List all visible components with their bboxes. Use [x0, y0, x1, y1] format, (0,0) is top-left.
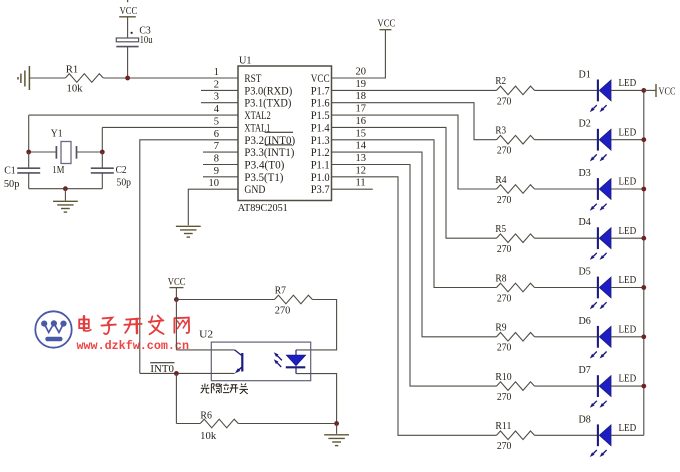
- wire R2 to D1: [535, 89, 598, 91]
- node A junction (RST/R1/C3): [125, 76, 130, 81]
- svg-text:12: 12: [356, 165, 367, 176]
- node rail junction row 6: [641, 334, 646, 339]
- svg-text:270: 270: [275, 305, 291, 316]
- svg-text:10u: 10u: [140, 35, 154, 46]
- svg-text:LED: LED: [619, 177, 637, 188]
- svg-text:2: 2: [214, 79, 219, 90]
- svg-text:R1: R1: [66, 65, 79, 76]
- svg-text:17: 17: [356, 104, 367, 115]
- wire pin 8 stub: [203, 164, 238, 166]
- node rail junction row 7: [641, 384, 646, 389]
- wire pin 17 to R4: [332, 115, 497, 189]
- resistor R4: [497, 185, 535, 194]
- svg-text:D7: D7: [579, 365, 591, 376]
- svg-text:P1.1: P1.1: [311, 160, 330, 172]
- node crystal ground junction: [63, 186, 68, 191]
- svg-text:10k: 10k: [200, 431, 217, 442]
- wire pin 3 stub: [201, 102, 238, 104]
- wire crystal left up to XTAL2: [28, 115, 30, 152]
- node rail junction row 2: [641, 137, 646, 142]
- svg-text:P3.1(TXD): P3.1(TXD): [244, 98, 291, 110]
- wire R7 to LED anode: [296, 300, 337, 350]
- resistor R9: [497, 333, 535, 342]
- svg-text:LED: LED: [619, 423, 637, 434]
- LED D2: [590, 129, 611, 162]
- wire R8 to D5: [535, 287, 598, 289]
- op-amp U2 optocoupler box: [211, 342, 310, 381]
- wire pin 13 to R10: [332, 165, 497, 387]
- VCC power symbol (right rail): [655, 84, 657, 97]
- node INT0 label: [150, 362, 174, 364]
- wire D6 to VCC rail: [611, 336, 644, 338]
- svg-text:VCC: VCC: [120, 6, 138, 17]
- wire VCC node down to collector: [175, 300, 177, 350]
- wire R3 to D2: [535, 139, 598, 141]
- capacitor C3 (polarized 10u): [116, 32, 138, 47]
- svg-text:VCC: VCC: [377, 18, 395, 29]
- wire pin 16 to R5: [332, 127, 497, 238]
- svg-text:1: 1: [214, 67, 219, 78]
- svg-text:LED: LED: [619, 78, 637, 89]
- op-amp U1 AT89C2051 body: [238, 66, 332, 201]
- svg-text:50p: 50p: [4, 179, 20, 190]
- wire collector entry: [176, 349, 234, 351]
- svg-text:8: 8: [214, 154, 219, 165]
- wire VCC tick down: [175, 288, 177, 300]
- wire GND pin 10 down: [188, 189, 238, 225]
- ground (crystal): [53, 201, 78, 212]
- wire P3.2 INT0 down to optocoupler: [140, 140, 238, 374]
- svg-text:LED: LED: [619, 374, 637, 385]
- svg-text:P3.4(T0): P3.4(T0): [244, 160, 284, 172]
- LED (emitter diode in U2): [286, 350, 306, 374]
- resistor R8: [497, 283, 535, 292]
- wire R4 to D3: [535, 188, 598, 190]
- wire XTAL2 pin 4: [29, 114, 238, 116]
- resistor R6: [200, 419, 238, 428]
- svg-text:270: 270: [497, 96, 512, 107]
- resistor R11: [497, 431, 535, 440]
- svg-text:R9: R9: [495, 323, 506, 334]
- wire VCC to C3: [127, 17, 129, 38]
- wire pin 14 to R9: [332, 152, 497, 337]
- svg-text:VCC: VCC: [168, 277, 186, 288]
- svg-text:VCC: VCC: [311, 73, 330, 85]
- wire XTAL1 pin 5: [102, 126, 238, 128]
- svg-text:13: 13: [356, 153, 367, 164]
- svg-text:www.dzkfw.com.cn: www.dzkfw.com.cn: [77, 339, 190, 353]
- svg-text:R3: R3: [495, 126, 506, 137]
- wire rail to VCC symbol: [644, 89, 656, 91]
- LED D4: [590, 227, 611, 260]
- wire D1 to VCC rail: [611, 89, 644, 91]
- svg-text:AT89C2051: AT89C2051: [238, 202, 288, 214]
- VCC power symbol (above R7): [169, 287, 183, 289]
- svg-text:D6: D6: [579, 316, 591, 327]
- svg-text:1M: 1M: [52, 165, 65, 176]
- svg-text:18: 18: [356, 91, 367, 102]
- svg-text:19: 19: [356, 79, 367, 90]
- node rail junction row 1: [641, 88, 646, 93]
- svg-text:D8: D8: [579, 414, 591, 425]
- svg-text:D1: D1: [579, 69, 591, 80]
- LED D1: [590, 80, 611, 113]
- crystal Y1 (1M): [29, 142, 103, 164]
- capacitor C1 (50p): [17, 152, 40, 189]
- node INT0 junction: [174, 371, 179, 376]
- wire pin 9 stub: [203, 176, 238, 178]
- LED D3: [590, 178, 611, 211]
- node VCC/R7/collector junction: [174, 297, 179, 302]
- resistor R7: [274, 295, 312, 304]
- resistor R5: [497, 234, 535, 243]
- transistor Q (photo-transistor in U2): [235, 350, 243, 374]
- svg-text:4: 4: [214, 104, 220, 115]
- svg-text:D3: D3: [579, 168, 591, 179]
- wire pin 11 stub: [332, 188, 373, 190]
- capacitor C2 (50p): [91, 152, 114, 189]
- node rail junction row 3: [641, 187, 646, 192]
- node crystal left junction: [26, 150, 31, 155]
- svg-text:P3.3(INT1): P3.3(INT1): [244, 147, 294, 159]
- svg-text:U1: U1: [239, 55, 252, 67]
- wire crystal right up to XTAL1: [101, 127, 103, 152]
- U1 pin name labels: [244, 73, 330, 196]
- node rail junction row 5: [641, 285, 646, 290]
- svg-text:XTAL2: XTAL2: [244, 110, 271, 122]
- svg-text:20: 20: [356, 67, 367, 78]
- wire pin 7 stub: [203, 151, 238, 153]
- svg-text:270: 270: [497, 293, 512, 304]
- wire D5 to VCC rail: [611, 287, 644, 289]
- node R6/cathode ground junction: [334, 421, 339, 426]
- svg-text:P1.6: P1.6: [311, 98, 330, 110]
- svg-text:P3.5(T1): P3.5(T1): [244, 172, 283, 184]
- svg-text:11: 11: [356, 178, 366, 189]
- svg-text:P1.4: P1.4: [311, 122, 330, 134]
- resistor R1: [65, 74, 103, 83]
- wire VCC node to R7: [176, 299, 274, 301]
- svg-text:15: 15: [356, 128, 367, 139]
- svg-text:R10: R10: [495, 372, 511, 383]
- resistor R10: [497, 382, 535, 391]
- wire to R6: [176, 423, 200, 425]
- svg-text:P3.0(RXD): P3.0(RXD): [244, 85, 292, 97]
- node crystal right junction: [100, 150, 105, 155]
- resistor R2: [497, 86, 535, 95]
- svg-text:10k: 10k: [67, 83, 84, 94]
- svg-text:C1: C1: [4, 165, 16, 176]
- svg-text:LED: LED: [619, 226, 637, 237]
- svg-text:R8: R8: [495, 273, 506, 284]
- wire R9 to D6: [535, 336, 598, 338]
- svg-text:6: 6: [214, 129, 219, 140]
- LED D5: [590, 277, 611, 310]
- node rail junction row 4: [641, 236, 646, 241]
- wire D4 to VCC rail: [611, 237, 644, 239]
- wire emitter / INT0 net: [140, 372, 235, 374]
- svg-text:16: 16: [356, 116, 367, 127]
- wire R10 to D7: [535, 385, 598, 387]
- svg-text:GND: GND: [244, 184, 265, 196]
- svg-text:U2: U2: [199, 329, 213, 341]
- watermark logo circle: [35, 311, 71, 347]
- svg-text:P3.7: P3.7: [311, 184, 330, 196]
- svg-text:VCC: VCC: [659, 86, 676, 97]
- watermark text dianzikaifawang (vector strokes): [79, 315, 189, 334]
- svg-text:Y1: Y1: [51, 129, 63, 140]
- wire pin 19 to R2: [332, 89, 497, 91]
- wire C1 to C2 bottom: [29, 188, 103, 190]
- wire ground to R1: [29, 77, 65, 79]
- light arrows in U2: [274, 352, 282, 367]
- LED D6: [590, 326, 611, 359]
- svg-text:R6: R6: [200, 410, 212, 421]
- ground (left of R1, rotated earth): [18, 66, 29, 90]
- wire pin 12 to R11: [332, 177, 497, 436]
- svg-text:270: 270: [497, 392, 512, 403]
- wire D7 to VCC rail: [611, 385, 644, 387]
- svg-text:C2: C2: [116, 165, 127, 176]
- svg-text:LED: LED: [619, 324, 637, 335]
- wire D8 to VCC rail: [611, 434, 644, 436]
- svg-text:D2: D2: [579, 119, 591, 130]
- ground (bottom right): [324, 435, 349, 446]
- VCC power symbol (top, above C3): [119, 0, 136, 17]
- svg-text:9: 9: [214, 166, 219, 177]
- ground (U1 GND pin): [176, 226, 201, 237]
- svg-text:R5: R5: [495, 224, 506, 235]
- wire pin 2 stub: [201, 89, 238, 91]
- svg-text:P1.2: P1.2: [311, 147, 330, 159]
- svg-text:270: 270: [497, 343, 512, 354]
- svg-text:270: 270: [497, 441, 512, 452]
- svg-text:10: 10: [209, 178, 220, 189]
- svg-text:7: 7: [214, 141, 219, 152]
- svg-text:R2: R2: [495, 76, 506, 87]
- svg-text:P1.0: P1.0: [311, 172, 330, 184]
- svg-text:P1.3: P1.3: [311, 135, 330, 147]
- wire R11 to D8: [535, 434, 598, 436]
- wire R1 to RST pin 1 through node: [103, 77, 238, 79]
- svg-text:270: 270: [497, 244, 512, 255]
- wire INT0 node down to R6: [175, 373, 177, 423]
- svg-text:R11: R11: [495, 421, 511, 432]
- svg-text:50p: 50p: [117, 177, 132, 188]
- wire VCC pin 20 up: [332, 30, 386, 78]
- svg-text:5: 5: [214, 116, 219, 127]
- svg-text:P1.5: P1.5: [311, 110, 330, 122]
- wire D3 to VCC rail: [611, 188, 644, 190]
- wire pin 18 to R3: [332, 103, 497, 140]
- wire VCC rail (right): [643, 90, 645, 435]
- svg-text:D4: D4: [579, 217, 592, 228]
- wire to crystal ground: [64, 189, 66, 201]
- wire down to ground: [336, 424, 338, 434]
- svg-text:R4: R4: [495, 175, 507, 186]
- LED D8: [590, 424, 611, 457]
- U1 pin numbers 1-10 and 20-11: [209, 67, 367, 190]
- wire pin 15 to R8: [332, 140, 497, 288]
- LED D7: [590, 375, 611, 408]
- svg-text:270: 270: [497, 195, 512, 206]
- wire R5 to D4: [535, 237, 598, 239]
- svg-text:D5: D5: [579, 267, 591, 278]
- wire C3 to node A: [127, 47, 129, 78]
- svg-text:270: 270: [497, 146, 512, 157]
- svg-text:LED: LED: [619, 127, 637, 138]
- wire LED cathode to ground drop: [296, 374, 337, 424]
- svg-text:14: 14: [356, 141, 367, 152]
- label guangxianwei switch (vector strokes): [201, 383, 248, 393]
- svg-text:R7: R7: [275, 285, 286, 296]
- resistor R3: [497, 135, 535, 144]
- svg-text:P1.7: P1.7: [311, 85, 330, 97]
- VCC power symbol (above pin 20): [380, 29, 392, 31]
- wire D2 to VCC rail: [611, 139, 644, 141]
- svg-text:3: 3: [214, 92, 219, 103]
- wire R6 to ground node: [238, 423, 336, 425]
- svg-text:RST: RST: [244, 73, 261, 85]
- svg-text:LED: LED: [619, 275, 637, 286]
